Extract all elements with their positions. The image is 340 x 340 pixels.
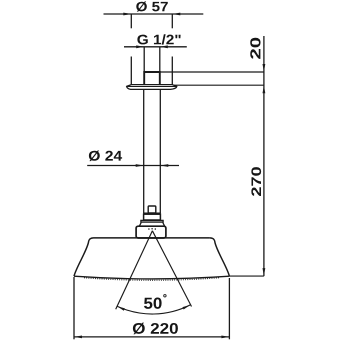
extension line G1/2 right	[159, 47, 161, 72]
pipe end detail rect	[148, 206, 156, 213]
degree symbol	[164, 295, 166, 297]
vertical dimension line right	[263, 36, 265, 276]
dimension text Ø220	[133, 323, 178, 335]
nut body	[144, 214, 161, 220]
arrow Ø57 left	[123, 13, 131, 16]
bell top edge	[94, 237, 210, 239]
arrow Ø24 left	[136, 164, 144, 167]
angle arc arrow right	[183, 305, 191, 310]
bell left curve	[74, 238, 94, 276]
escutcheon flange left side	[130, 57, 132, 85]
spray head top block	[136, 226, 166, 238]
angle arc 50deg	[117, 305, 190, 314]
arrow Ø57 right	[172, 13, 180, 16]
arrow G1/2 right	[160, 45, 168, 48]
spray dots	[148, 228, 150, 230]
arrow 270 down	[263, 268, 266, 276]
angle text 50	[144, 298, 162, 309]
shower arm pipe right wall	[159, 90, 161, 214]
arrow 20 down	[263, 64, 266, 72]
angle arc arrow left	[117, 306, 125, 311]
dimension line G1/2	[124, 46, 187, 48]
spray cone left line	[116, 231, 153, 309]
extension line G1/2 left	[143, 47, 145, 72]
flare skirt	[139, 222, 164, 226]
threaded connector box	[144, 72, 160, 85]
escutcheon plate	[127, 85, 177, 90]
extension line Ø57 right	[171, 15, 173, 29]
dimension text 270 (rotated)	[251, 167, 261, 196]
extension line Ø220 left	[73, 277, 75, 339]
arrow G1/2 left	[136, 45, 144, 48]
dimension text Ø24	[89, 150, 122, 161]
bell bottom rim	[74, 276, 229, 279]
arrow Ø24 right	[160, 164, 168, 167]
escutcheon flange right side	[171, 57, 173, 85]
bell right curve	[210, 238, 230, 276]
reference line 270 bottom	[229, 275, 264, 277]
arrow Ø220 left	[74, 336, 82, 339]
reference line 20 top	[160, 71, 264, 73]
dimension text Ø57	[136, 1, 168, 11]
washer band	[141, 220, 163, 222]
shower arm pipe left wall	[143, 90, 145, 214]
dimension line Ø220	[74, 336, 229, 338]
extension line Ø57 left	[130, 15, 132, 29]
dimension line Ø24	[87, 165, 179, 167]
dimension line Ø57	[104, 13, 204, 15]
extension line Ø220 right	[228, 278, 230, 339]
bell rim dotted face	[84, 278, 219, 281]
nut top line	[143, 212, 161, 214]
dimension text 20 (rotated)	[250, 38, 260, 59]
arrow Ø220 right	[221, 336, 229, 339]
dimension text G 1/2"	[137, 34, 180, 44]
spray cone right line	[152, 231, 191, 307]
arrow 20/270 up	[263, 85, 266, 93]
reference line 20 bottom	[173, 84, 264, 86]
